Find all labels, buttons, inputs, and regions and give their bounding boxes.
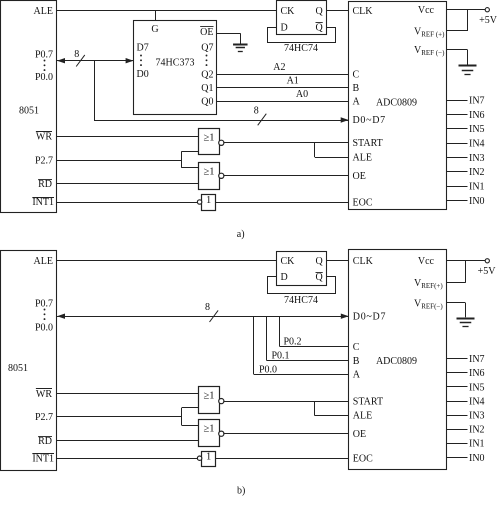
svg-text:IN4: IN4 [469,139,485,150]
svg-text:IN6: IN6 [469,110,485,121]
svg-text:ADC0809: ADC0809 [376,97,417,108]
svg-text:ADC0809: ADC0809 [376,356,417,367]
svg-text:Q0: Q0 [201,97,213,108]
svg-text:EOC: EOC [353,197,373,208]
svg-text:INT1: INT1 [32,454,54,465]
svg-text:8: 8 [74,49,79,60]
svg-text:74HC373: 74HC373 [156,57,195,68]
svg-text:Q: Q [316,256,324,267]
svg-text:D: D [281,272,288,283]
svg-text:P0.0: P0.0 [35,72,53,83]
svg-text:OE: OE [353,429,366,440]
svg-text:D7: D7 [137,42,149,53]
svg-text:≥1: ≥1 [203,424,214,435]
svg-text:8051: 8051 [19,105,39,116]
svg-text:A: A [353,97,361,108]
svg-text:IN3: IN3 [469,411,485,422]
svg-text:D: D [281,22,288,33]
svg-text:Q7: Q7 [201,42,213,53]
svg-text:IN5: IN5 [469,382,485,393]
svg-text:+5V: +5V [479,15,498,26]
svg-text:IN3: IN3 [469,153,485,164]
svg-text:IN7: IN7 [469,96,485,107]
svg-text:Q: Q [316,22,324,33]
svg-text:CLK: CLK [353,6,374,17]
svg-text:≥1: ≥1 [203,132,214,143]
svg-text:P0.7: P0.7 [35,299,53,310]
svg-text:74HC74: 74HC74 [284,295,318,306]
svg-text:IN0: IN0 [469,196,485,207]
svg-text:P0.0: P0.0 [259,364,277,375]
svg-text:START: START [353,138,383,149]
svg-text:A1: A1 [287,75,299,86]
svg-text:D0~D7: D0~D7 [353,312,386,323]
svg-text:74HC74: 74HC74 [284,43,318,54]
svg-text:RD: RD [38,179,52,190]
svg-text:G: G [151,24,158,35]
svg-text:EOC: EOC [353,454,373,465]
svg-text:ALE: ALE [353,153,372,164]
svg-text:IN2: IN2 [469,425,485,436]
svg-text:C: C [353,342,360,353]
svg-text:B: B [353,356,360,367]
svg-text:IN7: IN7 [469,354,485,365]
svg-text:P2.7: P2.7 [35,155,53,166]
svg-text:1: 1 [206,195,211,206]
svg-text:8: 8 [254,106,259,117]
svg-text:Q: Q [316,6,324,17]
svg-text:D0: D0 [137,69,149,80]
svg-text:8: 8 [205,302,210,313]
svg-text:WR: WR [36,131,52,142]
svg-text:START: START [353,396,383,407]
svg-text:IN5: IN5 [469,124,485,135]
svg-text:P2.7: P2.7 [35,412,53,423]
svg-text:CK: CK [281,256,296,267]
svg-text:OE: OE [353,171,366,182]
svg-text:IN1: IN1 [469,182,485,193]
svg-text:A0: A0 [296,89,308,100]
svg-text:Q: Q [316,272,324,283]
svg-text:IN2: IN2 [469,167,485,178]
svg-text:WR: WR [36,389,52,400]
svg-text:≥1: ≥1 [203,391,214,402]
svg-text:OE: OE [200,27,213,38]
svg-text:IN6: IN6 [469,368,485,379]
svg-text:C: C [353,69,360,80]
svg-text:RD: RD [38,436,52,447]
svg-text:P0.1: P0.1 [272,351,290,362]
svg-text:b): b) [237,486,245,497]
svg-text:+5V: +5V [478,266,497,277]
svg-text:Vcc: Vcc [418,5,435,16]
svg-text:a): a) [237,229,245,240]
svg-text:D0~D7: D0~D7 [353,115,386,126]
svg-text:Q2: Q2 [201,69,213,80]
svg-text:Q1: Q1 [201,83,213,94]
svg-text:IN0: IN0 [469,453,485,464]
svg-text:P0.0: P0.0 [35,322,53,333]
svg-text:B: B [353,83,360,94]
svg-text:INT1: INT1 [32,197,54,208]
svg-text:P0.2: P0.2 [284,336,302,347]
svg-text:≥1: ≥1 [203,167,214,178]
svg-text:A: A [353,370,361,381]
svg-text:P0.7: P0.7 [35,49,53,60]
svg-text:CLK: CLK [353,256,374,267]
svg-text:CK: CK [281,6,296,17]
svg-text:ALE: ALE [34,6,53,17]
svg-text:ALE: ALE [353,411,372,422]
svg-text:Vcc: Vcc [418,256,435,267]
svg-text:ALE: ALE [34,256,53,267]
svg-text:IN1: IN1 [469,439,485,450]
svg-text:1: 1 [206,452,211,463]
svg-text:8051: 8051 [8,363,28,374]
svg-text:IN4: IN4 [469,396,485,407]
svg-text:A2: A2 [273,62,285,73]
